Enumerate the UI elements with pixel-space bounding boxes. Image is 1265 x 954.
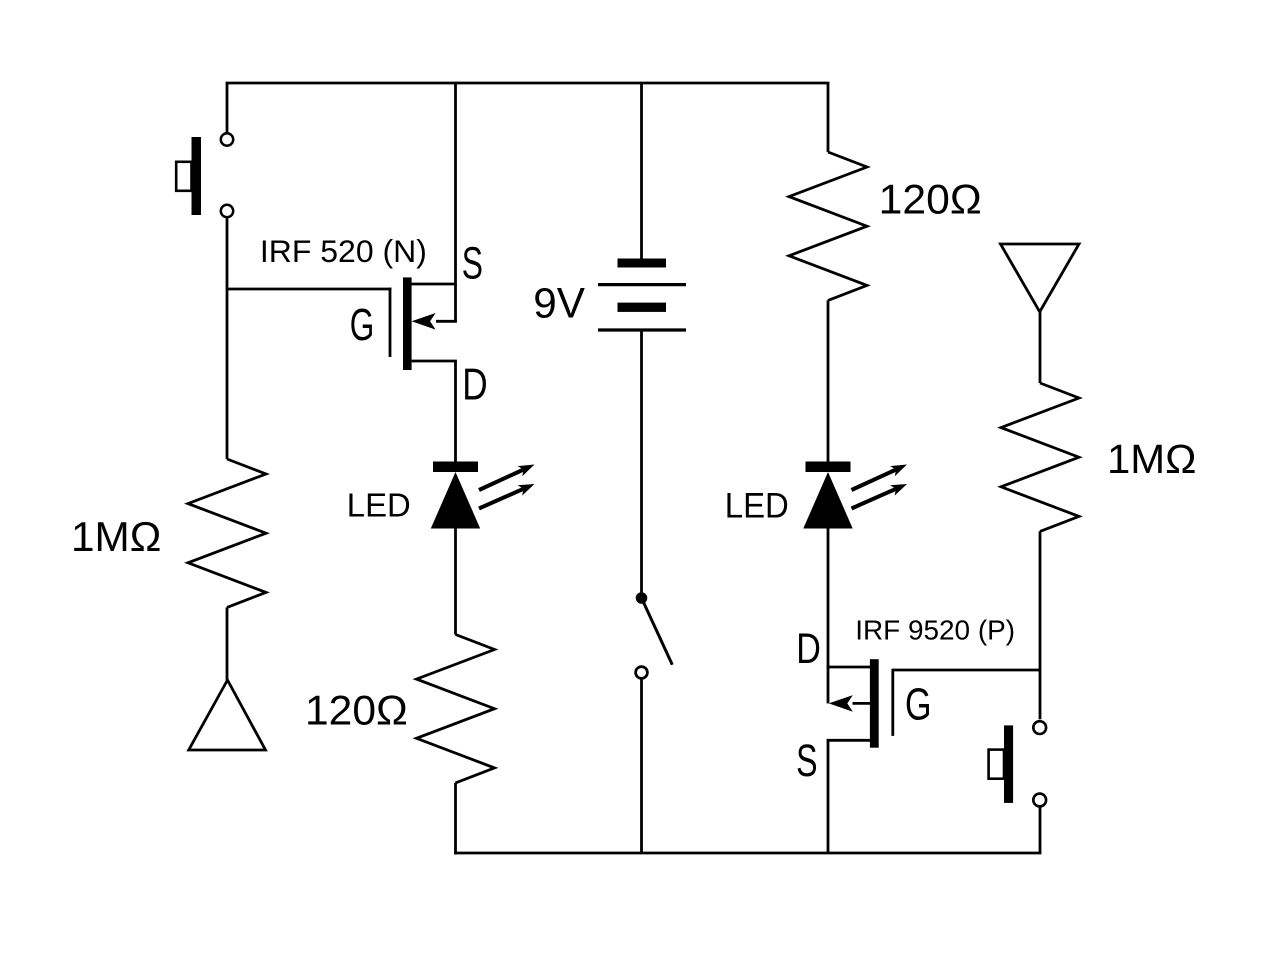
svg-text:G: G	[905, 678, 932, 729]
wire triangle to R4	[1039, 311, 1042, 383]
wire bottom rail	[454, 852, 1041, 855]
svg-text:G: G	[350, 299, 375, 350]
LED D1 (left)	[433, 462, 478, 473]
Q2 drain-body link	[827, 667, 830, 703]
svg-text:D: D	[796, 625, 821, 672]
LED D2 light arrows	[852, 470, 897, 491]
svg-text:1MΩ: 1MΩ	[1107, 436, 1196, 482]
svg-text:1MΩ: 1MΩ	[71, 514, 161, 560]
wire top rail to battery	[640, 83, 643, 260]
battery plate short 1	[618, 259, 667, 268]
wire battery to switch SW3	[640, 330, 643, 593]
touch plate triangle (left)	[189, 680, 266, 750]
wire gate of Q1	[227, 288, 391, 291]
wire top rail to Q1 source	[454, 83, 457, 285]
SW3 lever	[642, 598, 673, 665]
pushbutton SW1 top contact	[221, 133, 233, 145]
Q2 channel bar	[870, 659, 879, 748]
wire Q2 gate to right node	[893, 669, 1041, 672]
Q2 body arrow	[829, 695, 853, 712]
resistor R4 1M ohm	[1001, 383, 1079, 531]
resistor R1 1M ohm	[188, 459, 266, 607]
svg-text:D: D	[462, 360, 487, 409]
wire R1 to touch plate	[226, 607, 229, 681]
resistor R2 120 ohm	[417, 635, 495, 783]
pushbutton SW1 bar	[192, 137, 202, 215]
SW3 open contact	[636, 667, 648, 679]
svg-text:LED: LED	[725, 487, 789, 526]
wire SW2 to bottom rail	[1039, 808, 1042, 854]
wire SW1 to R1	[226, 218, 229, 459]
Q1 body lead	[436, 320, 457, 323]
wire R3 to LED2	[827, 300, 830, 462]
Q2 drain lead	[828, 666, 871, 669]
SW3 pivot dot	[636, 593, 647, 604]
battery plate long 2	[598, 328, 686, 331]
svg-text:LED: LED	[347, 486, 411, 523]
Q1 source lead	[410, 283, 456, 286]
resistor R3 120 ohm	[789, 152, 867, 300]
Q1 drain lead	[412, 360, 457, 363]
Q2 source lead	[827, 739, 871, 742]
pushbutton SW2 top contact	[1033, 721, 1046, 734]
pushbutton SW1 bottom contact	[221, 205, 233, 217]
wire Q1 drain to LED1	[454, 361, 457, 462]
wire LED1 to R2	[454, 529, 457, 635]
touch plate triangle (right)	[1001, 244, 1080, 312]
wire SW3 to bottom rail	[640, 679, 643, 853]
pushbutton SW1 actuator	[176, 162, 191, 191]
LED D1 light arrows	[479, 470, 524, 491]
svg-text:120Ω: 120Ω	[879, 176, 982, 223]
wire left drop to pushbutton SW1	[226, 83, 229, 132]
pushbutton SW2 bar	[1004, 725, 1013, 803]
pushbutton SW2 bottom contact	[1033, 794, 1046, 807]
wire R4 to pushbutton SW2	[1039, 531, 1042, 719]
wire LED2 to Q2 drain	[827, 529, 830, 669]
battery plate long 1	[598, 283, 686, 286]
Q1 channel bar	[403, 277, 412, 370]
svg-text:S: S	[796, 735, 817, 786]
wire top rail to R3	[827, 83, 830, 152]
Q1 source-body link	[454, 284, 457, 321]
Q1 body arrow	[412, 313, 436, 330]
pushbutton SW2 actuator	[989, 750, 1004, 779]
wire top rail	[226, 82, 830, 85]
wire R2 to bottom rail	[454, 783, 457, 855]
Q1 gate plate	[389, 288, 392, 357]
svg-text:S: S	[462, 237, 483, 288]
wire Q2 source to bottom rail	[827, 740, 830, 853]
Q2 body lead	[853, 702, 872, 705]
battery plate short 2	[618, 303, 667, 312]
svg-text:120Ω: 120Ω	[305, 686, 408, 733]
Q2 gate plate	[891, 669, 894, 736]
svg-text:IRF 520 (N): IRF 520 (N)	[260, 233, 427, 269]
LED D2 (right)	[806, 462, 851, 473]
svg-text:9V: 9V	[533, 280, 585, 328]
svg-text:IRF 9520 (P): IRF 9520 (P)	[855, 614, 1015, 646]
